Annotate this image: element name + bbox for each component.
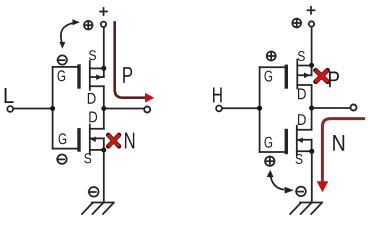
terminal output right (351, 105, 357, 111)
pin label S of PMOS right (298, 51, 305, 61)
terminal input H (216, 106, 222, 112)
wire PMOS gate (left) (53, 66, 78, 68)
wire input column (left) (52, 67, 54, 149)
label P (right, off) (329, 72, 339, 88)
charge symbol plus (PMOS gate, right) (267, 52, 276, 61)
junction source-body NMOS right (309, 149, 314, 154)
charge symbol minus (PMOS gate, left) (58, 55, 67, 64)
wire NMOS gate (right) (260, 151, 285, 153)
junction source-body PMOS left (101, 66, 106, 71)
wire output (left) (104, 108, 144, 110)
transistor PMOS left: body stub with arrow (90, 76, 104, 78)
terminal VDD left (101, 22, 106, 27)
pin label D of NMOS right (298, 114, 306, 125)
red X on NMOS left (108, 135, 119, 146)
transistor NMOS left: drain stub (90, 128, 104, 130)
label N (right, conducting) (333, 135, 344, 151)
junction source-body PMOS right (309, 63, 314, 68)
pin label D of PMOS right (298, 88, 306, 99)
transistor NMOS left: body stub with arrow (90, 137, 104, 139)
label N (left, off) (125, 133, 134, 149)
transistor NMOS left: channel (89, 125, 91, 155)
ground left (82, 203, 114, 215)
terminal input L (7, 106, 13, 112)
charge symbol plus (supply, left) (84, 21, 93, 30)
pin label D of PMOS left (88, 93, 96, 104)
transistor PMOS right: channel (296, 60, 298, 89)
pin label S of NMOS right (296, 154, 303, 164)
junction input column left (50, 106, 55, 111)
wire output (right) (312, 107, 350, 109)
transistor PMOS left: gate bar (77, 66, 80, 87)
transistor PMOS right: gate bar (285, 66, 288, 87)
pin label G of NMOS left (59, 133, 67, 144)
transistor NMOS right: body-source connector (311, 140, 313, 152)
junction input column right (257, 106, 262, 111)
transistor NMOS right: gate bar (285, 131, 288, 153)
node VDD right: + label (308, 7, 315, 14)
terminal output left (144, 107, 150, 113)
transistor PMOS right: drain stub (297, 84, 311, 86)
transistor NMOS left: source stub (90, 149, 104, 151)
wire NMOS source to ground (right) (311, 151, 313, 202)
charge symbol minus (NMOS gate, left) (57, 155, 66, 164)
wire input column (right) (259, 67, 261, 152)
charge symbol minus (near ground, right) (296, 187, 306, 197)
red current arrow through PMOS left (115, 22, 146, 97)
transistor NMOS right: drain stub (297, 129, 312, 131)
pin label D of NMOS left (89, 112, 97, 123)
transistor PMOS left: channel (89, 61, 91, 90)
label H input (213, 88, 222, 103)
transistor PMOS right: body stub with arrow (297, 74, 311, 76)
terminal VDD right (309, 21, 314, 26)
red current arrow through NMOS right (322, 119, 363, 182)
charge symbol plus (NMOS gate, right) (265, 157, 274, 166)
transistor NMOS right: source stub (297, 150, 312, 152)
pin label S of PMOS left (89, 50, 96, 60)
wire output column (right) (311, 85, 313, 130)
wire input L (left) (14, 108, 53, 110)
pin label S of NMOS left (84, 153, 91, 163)
curved arrow gate-to-ground (right) (267, 170, 294, 194)
wire NMOS gate (left) (53, 148, 78, 150)
transistor PMOS left: body-source connector (103, 68, 105, 77)
ground right (290, 203, 322, 215)
node VDD left: + label (100, 8, 107, 15)
wire VDD to PMOS source (right) (311, 28, 313, 66)
label L input (5, 88, 14, 103)
wire VDD to PMOS source (left) (103, 28, 105, 68)
transistor NMOS right: body stub with arrow (297, 139, 312, 141)
wire input H (right) (223, 107, 260, 109)
wire PMOS gate (right) (260, 66, 285, 68)
pin label G of PMOS right (265, 71, 273, 82)
charge symbol minus (near ground, left) (89, 187, 99, 197)
wire output column (left) (103, 86, 105, 129)
label P (left, conducting) (123, 67, 132, 83)
curved arrow gate-to-supply (left) (59, 19, 79, 49)
red X on PMOS right (316, 70, 328, 81)
pin label G of PMOS left (58, 70, 66, 81)
wire NMOS source to ground (left) (103, 150, 105, 203)
transistor PMOS left: source stub (90, 67, 104, 69)
junction output column left (101, 106, 106, 111)
pin label G of NMOS right (265, 137, 273, 148)
junction output column right (309, 106, 314, 111)
transistor PMOS left: drain stub (90, 85, 104, 87)
transistor PMOS right: body-source connector (311, 65, 313, 75)
transistor NMOS left: body-source connector (103, 138, 105, 150)
transistor NMOS right: channel (296, 126, 298, 156)
junction source-body NMOS left (101, 148, 106, 153)
charge symbol plus (supply, right) (292, 19, 301, 28)
transistor PMOS right: source stub (297, 65, 311, 67)
transistor NMOS left: gate bar (77, 130, 80, 150)
